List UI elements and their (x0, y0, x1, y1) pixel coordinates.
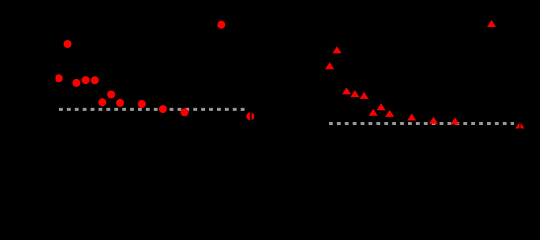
data point triangle T3 (487, 20, 496, 27)
left panel right axis spine (black, bisects circle C13) (250, 108, 252, 124)
data point triangle T5 (350, 90, 359, 97)
data point circle C11 (159, 105, 167, 113)
data point circle C9 (116, 99, 124, 107)
data point circle C10 (138, 100, 146, 108)
left panel left axis spine (black, overdraws circle C3) (51, 70, 56, 84)
data point circle C1 (64, 40, 72, 48)
data point circle C5 (82, 76, 90, 84)
data point triangle T4 (342, 87, 351, 94)
data point triangle T2 (325, 62, 334, 69)
data point circle C6 (91, 76, 99, 84)
data point triangle T12 (451, 118, 460, 125)
data point triangle T11 (429, 117, 438, 124)
data point circle C4 (72, 79, 80, 87)
data point circle C13 (clipped by right axis spine) (246, 112, 254, 120)
data point triangle T9 (385, 110, 394, 117)
data point triangle T10 (407, 114, 416, 121)
data point circle C12 (181, 108, 189, 116)
data point circle C2 (217, 21, 225, 29)
data point triangle T13 (clipped by right axis spine) (515, 122, 524, 129)
data point triangle T1 (333, 46, 342, 53)
data point triangle T6 (360, 92, 369, 99)
data point circle C7 (107, 91, 115, 99)
dashed reference line, right panel (329, 122, 514, 125)
data point circle C3 (55, 74, 63, 82)
data point circle C8 (98, 98, 106, 106)
dashed reference line, left panel (59, 108, 245, 111)
right panel right axis spine (black, bisects triangle T13) (519, 118, 520, 132)
data point triangle T8 (377, 103, 386, 110)
data point triangle T7 (369, 109, 378, 116)
